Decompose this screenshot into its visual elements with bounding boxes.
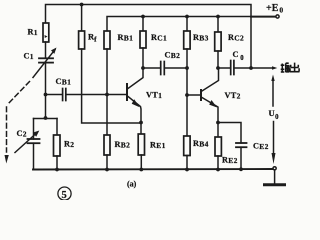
wire Rf to VT1 emitter (82, 49, 141, 123)
node RC2 / VT2 collector / C0 (216, 66, 220, 70)
dashed gang link between C1 and C2 (7, 82, 30, 153)
ground terminal circle (273, 167, 276, 170)
node A junction of C1 / CB1 (44, 93, 48, 97)
voltage U0 indicator (271, 75, 275, 165)
label output (Chinese 输出 drawn as strokes) (281, 63, 300, 73)
svg-text:RB1: RB1 (118, 33, 134, 42)
svg-text:R1: R1 (28, 28, 38, 37)
resistor RB1 (104, 31, 110, 95)
svg-text:RC2: RC2 (228, 33, 244, 42)
svg-text:RE1: RE1 (150, 141, 166, 150)
svg-text:VT1: VT1 (146, 91, 162, 100)
resistor RC1 (140, 17, 146, 69)
capacitor CB2 (143, 62, 187, 75)
capacitor CB1 (46, 89, 127, 101)
svg-text:RC1: RC1 (151, 33, 167, 42)
ground symbol (265, 170, 285, 185)
node RB3 / VT2 base (185, 93, 189, 97)
output wire and arrow (249, 66, 253, 70)
svg-text:5: 5 (62, 190, 67, 200)
capacitor C2 (variable) (15, 119, 40, 170)
wire feedback top rail from output to R1 and Rf (46, 5, 252, 69)
resistor RE1 (138, 123, 144, 171)
node RC1 top (141, 15, 145, 19)
figure number circle 5 (58, 187, 71, 200)
ground rail (33, 168, 273, 171)
svg-text:RE2: RE2 (222, 156, 238, 165)
node RE1 bottom (139, 168, 143, 172)
svg-text:C1: C1 (24, 52, 34, 61)
transistor VT2 (187, 68, 219, 123)
node VT1 emitter / Rf (139, 121, 143, 125)
resistor RB4 (184, 136, 190, 170)
node RE2 bottom (216, 168, 220, 172)
node RB2 bottom (105, 168, 109, 172)
capacitor C1 (variable) (33, 42, 57, 119)
svg-text:CB1: CB1 (56, 77, 72, 86)
transistor VT1 (126, 68, 143, 123)
svg-text:CB2: CB2 (165, 51, 181, 60)
svg-text:RB4: RB4 (193, 139, 209, 148)
svg-text:R2: R2 (64, 140, 74, 149)
power rail +E0 (107, 17, 276, 32)
node R2 bottom (55, 168, 59, 172)
svg-text:CE2: CE2 (253, 142, 269, 151)
capacitor CE2 (218, 123, 247, 170)
node RC2 top (216, 15, 220, 19)
svg-text:(a): (a) (127, 180, 137, 189)
node VT2 emitter (216, 121, 220, 125)
node CB2 / RB3 (185, 66, 189, 70)
resistor RE2 (215, 123, 221, 171)
resistor R1 (43, 23, 49, 42)
resistor RB3 (184, 17, 190, 137)
capacitor C0 (218, 61, 251, 75)
terminal +E0 (276, 15, 279, 18)
resistor Rf (79, 3, 141, 123)
wire base of VT1 (67, 94, 127, 96)
resistor RC2 (215, 17, 221, 69)
resistor RB2 (104, 95, 110, 171)
node CE2 bottom (239, 167, 243, 171)
svg-text:RB2: RB2 (115, 140, 131, 149)
node RC1 / CB2 / VT1 collector (141, 66, 145, 70)
svg-text:RB3: RB3 (193, 33, 209, 42)
svg-text:C2: C2 (17, 129, 27, 138)
svg-text:+E0: +E0 (266, 3, 283, 15)
resistor R2 (54, 119, 61, 170)
node RB1/RB2 divider on base wire (105, 93, 109, 97)
svg-text:VT2: VT2 (225, 91, 241, 100)
node RB3 top (185, 15, 189, 19)
wire top of C2/R2 shunt (34, 118, 58, 120)
node RB4 bottom (185, 168, 189, 172)
